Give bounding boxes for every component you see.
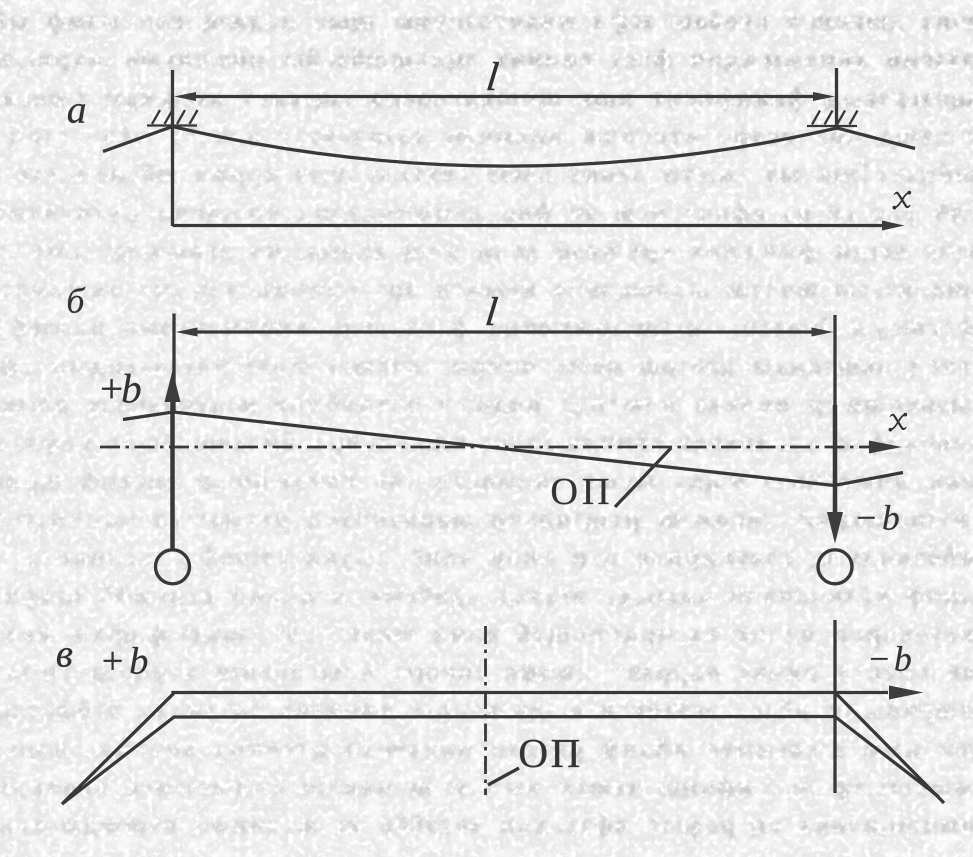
fig v right anchor slant upper xyxy=(836,693,945,803)
figure b: label б xyxy=(68,287,85,313)
fig a label l xyxy=(487,62,499,90)
fig b label OP xyxy=(552,479,608,505)
fig a left support hatch ground line xyxy=(147,124,197,126)
fig b right post line xyxy=(833,315,836,486)
fig b OP callout line xyxy=(615,448,671,507)
fig b span dimension line l xyxy=(193,330,817,333)
fig v label +b xyxy=(104,647,148,674)
fig b x-axis arrowhead xyxy=(869,441,902,454)
fig b dimension arrowhead left xyxy=(176,328,198,337)
fig b left post line xyxy=(172,314,175,414)
fig v label -b xyxy=(871,646,911,671)
figure v: label в xyxy=(57,648,72,667)
fig b track axis dash-dot line xyxy=(100,446,880,449)
fig v center dash-dot line xyxy=(484,626,487,795)
figure a: label а xyxy=(68,104,85,123)
fig b +b force arrowhead xyxy=(165,371,181,403)
fig v upper wire polyline with left anchor slant xyxy=(62,693,888,805)
fig a span dimension line l xyxy=(192,95,818,98)
fig b right insulator circle xyxy=(818,550,852,584)
fig b dimension arrowhead right xyxy=(812,328,834,337)
fig v axis arrowhead xyxy=(889,686,924,700)
fig b label +b xyxy=(102,374,140,403)
fig b -b force arrow shaft xyxy=(833,405,838,513)
fig b +b force arrow shaft xyxy=(170,400,175,549)
fig b left insulator circle xyxy=(156,550,190,584)
fig a dimension arrowhead right xyxy=(813,92,835,101)
fig a dimension arrowhead left xyxy=(174,92,196,101)
fig a wire tail beyond left support xyxy=(103,127,173,152)
fig b -b force arrowhead xyxy=(827,512,843,544)
fig b x-axis label xyxy=(889,413,908,432)
fig a sagging wire curve xyxy=(173,127,838,167)
fig a right support hatch ground line xyxy=(807,125,857,127)
fig v OP callout line xyxy=(488,768,519,785)
fig v right anchor slant lower xyxy=(836,717,940,797)
fig b label -b xyxy=(858,505,899,530)
fig b contact wire polyline xyxy=(123,412,903,486)
fig a left support post line xyxy=(171,70,174,226)
fig a x-axis arrowhead xyxy=(882,221,905,231)
fig a left support hatch marks xyxy=(152,110,198,124)
fig a right support post line xyxy=(835,68,838,128)
fig v lower wire polyline with left anchor slant xyxy=(62,717,835,805)
fig a right support hatch marks xyxy=(812,111,858,125)
fig v support vertical line xyxy=(833,620,836,793)
fig a wire tail beyond right support xyxy=(837,128,915,149)
fig v label OP xyxy=(520,740,579,768)
fig a x-axis label xyxy=(893,191,912,210)
fig b label l xyxy=(486,297,498,325)
fig a x-axis line xyxy=(173,224,889,227)
